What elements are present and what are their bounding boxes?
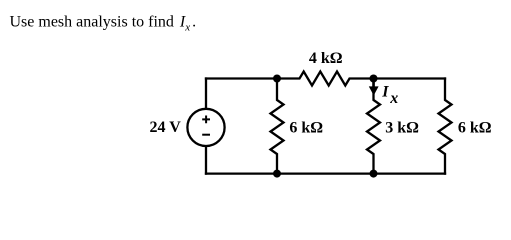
svg-text:24 V: 24 V: [150, 119, 182, 136]
svg-text:4 kΩ: 4 kΩ: [309, 50, 343, 67]
svg-text:3 kΩ: 3 kΩ: [385, 119, 419, 136]
svg-text:6 kΩ: 6 kΩ: [458, 119, 492, 136]
svg-text:x: x: [389, 90, 398, 107]
svg-text:6 kΩ: 6 kΩ: [289, 119, 323, 136]
svg-text:Use mesh analysis to find Ix .: Use mesh analysis to find Ix .: [10, 14, 197, 34]
svg-text:I: I: [381, 83, 389, 100]
